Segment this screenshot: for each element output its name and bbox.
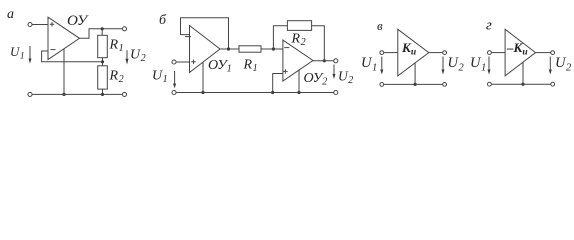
minus sign OU1 bbox=[185, 36, 191, 38]
svg-text:ОУ1: ОУ1 bbox=[208, 58, 232, 75]
wire common pin to rail (g) bbox=[522, 63, 524, 85]
arrow U1 (g) bbox=[488, 57, 491, 75]
svg-text:в: в bbox=[377, 18, 383, 33]
terminal bottom-right (b) bbox=[334, 90, 338, 94]
label U1 (v) bbox=[361, 55, 377, 74]
node dot OU2 feedback left bbox=[272, 47, 275, 50]
svg-text:U2: U2 bbox=[448, 55, 465, 74]
resistor R1 (b) bbox=[239, 46, 261, 52]
minus sign OU2 bbox=[284, 47, 289, 49]
amplifier Ku triangle (v) bbox=[398, 29, 429, 76]
arrow U2 (g) bbox=[549, 57, 552, 75]
wire R2 bottom lead bbox=[102, 89, 104, 94]
plus sign OU2 bbox=[283, 69, 287, 73]
wire R1 top lead bbox=[101, 29, 103, 36]
label a bbox=[7, 7, 14, 22]
terminal bottom-left (g) bbox=[488, 82, 492, 86]
label Ku (v) bbox=[401, 40, 416, 58]
resistor R1 (a) bbox=[98, 35, 108, 57]
label R1 (a) bbox=[109, 38, 124, 55]
terminal input left (v) bbox=[380, 51, 384, 55]
op-amp OU2 triangle bbox=[283, 40, 313, 81]
wire OU2 common pin to rail bbox=[298, 70, 300, 93]
svg-text:U1: U1 bbox=[470, 55, 486, 74]
svg-text:ОУ: ОУ bbox=[67, 13, 89, 29]
wire OU1 output to R1 bbox=[220, 48, 239, 50]
terminal input left (b) bbox=[172, 60, 176, 64]
label R2 (a) bbox=[109, 69, 124, 86]
arrow U1 (b) bbox=[173, 71, 176, 89]
label U2 (b) bbox=[338, 69, 353, 87]
wire R1 bottom to R2 top lead bbox=[102, 58, 104, 66]
op-amp OU triangle (a) bbox=[48, 17, 80, 59]
wire ground rail (v) bbox=[384, 83, 443, 85]
node dot output/R1 top (a) bbox=[101, 27, 104, 30]
node dot common pin on rail (v) bbox=[414, 83, 417, 86]
arrow U1 (v) bbox=[380, 57, 383, 75]
wire ground rail (g) bbox=[492, 83, 551, 85]
label U2 (v) bbox=[448, 55, 465, 74]
label g bbox=[486, 18, 492, 34]
node dot + step on rail (b) bbox=[271, 91, 274, 94]
svg-text:U2: U2 bbox=[130, 48, 146, 65]
terminal bottom-right (v) bbox=[443, 83, 447, 87]
label OU2 bbox=[304, 71, 328, 88]
label v bbox=[377, 18, 383, 33]
svg-text:–Кu: –Кu bbox=[506, 40, 528, 58]
arrow U1 (a) bbox=[29, 46, 32, 64]
wire input terminal to amplifier (v) bbox=[384, 52, 398, 54]
plus sign OU1 bbox=[191, 60, 195, 64]
svg-text:б: б bbox=[159, 13, 167, 28]
node dot OU1 common pin on rail bbox=[201, 91, 204, 94]
terminal bottom-left (v) bbox=[380, 83, 384, 87]
wire OU2 output to terminal bbox=[313, 60, 334, 62]
resistor R2 (b) bbox=[287, 21, 311, 31]
svg-text:г: г bbox=[486, 18, 492, 34]
wire from input terminal to + input bbox=[32, 24, 48, 26]
label U2 (a) bbox=[130, 48, 146, 65]
svg-text:R2: R2 bbox=[291, 32, 306, 49]
svg-text:R1: R1 bbox=[243, 58, 258, 75]
svg-text:R2: R2 bbox=[109, 69, 124, 86]
node dot OU2 output bbox=[323, 59, 326, 62]
svg-text:U1: U1 bbox=[361, 55, 377, 74]
wire op-amp output to top node (a) bbox=[80, 29, 123, 39]
label U1 (a) bbox=[10, 44, 25, 62]
wire input terminal to amplifier (g) bbox=[492, 52, 506, 54]
terminal output right (v) bbox=[443, 51, 447, 55]
wire amplifier output to terminal (g) bbox=[536, 52, 551, 54]
plus sign at + input (a) bbox=[50, 22, 54, 26]
terminal bottom-left (a) bbox=[28, 92, 32, 96]
wire ground rail (b) bbox=[176, 92, 333, 94]
label U1 (g) bbox=[470, 55, 486, 74]
label b bbox=[159, 13, 167, 28]
terminal output right (b) bbox=[334, 59, 338, 63]
amplifier -Ku triangle (g) bbox=[505, 29, 535, 76]
node dot OU1 output bbox=[227, 47, 230, 50]
node dot OU2 common pin on rail bbox=[297, 91, 300, 94]
resistor R2 (a) bbox=[98, 66, 108, 89]
arrow U2 (v) bbox=[442, 57, 445, 75]
label OU (a) bbox=[67, 13, 89, 29]
terminal bottom-right (a) bbox=[122, 92, 126, 96]
wire feedback loop OU2 left side bbox=[273, 26, 287, 49]
wire R1 to - input OU2 bbox=[261, 48, 283, 50]
label R1 (b) bbox=[243, 58, 258, 75]
terminal output top-right (a) bbox=[122, 27, 126, 31]
node dot R2 bottom on ground rail (a) bbox=[101, 93, 104, 96]
wire feedback: - input step to R1/R2 junction bbox=[42, 51, 103, 62]
node dot common pin on rail (g) bbox=[521, 83, 524, 86]
svg-text:R1: R1 bbox=[109, 38, 124, 55]
label -Ku (g) bbox=[506, 40, 528, 58]
svg-text:Кu: Кu bbox=[401, 40, 416, 58]
op-amp OU1 triangle bbox=[190, 26, 221, 73]
wire feedback loop OU1 output to - input bbox=[181, 18, 229, 49]
wire OU1 common pin to rail bbox=[202, 62, 204, 92]
svg-text:U1: U1 bbox=[152, 69, 168, 86]
terminal output right (g) bbox=[551, 51, 555, 55]
wire amplifier output to terminal (v) bbox=[429, 52, 443, 54]
label OU1 bbox=[208, 58, 232, 75]
node dot R1/R2 junction (a) bbox=[101, 60, 104, 63]
svg-text:ОУ2: ОУ2 bbox=[304, 71, 328, 88]
svg-text:U2: U2 bbox=[555, 55, 572, 74]
wire common pin to rail (v) bbox=[414, 63, 416, 84]
wire op-amp common pin to ground rail (a) bbox=[63, 49, 65, 95]
arrow U2 (b) bbox=[333, 65, 336, 80]
wire feedback loop OU2 right side bbox=[312, 26, 325, 61]
label R2 (b) bbox=[291, 32, 306, 49]
arrow U2 (a) bbox=[126, 50, 129, 64]
svg-text:U1: U1 bbox=[10, 44, 25, 62]
wire + input OU2 step to ground rail bbox=[273, 74, 283, 93]
svg-text:U2: U2 bbox=[338, 69, 353, 87]
minus sign at - input (a) bbox=[51, 49, 56, 51]
wire ground rail (a) bbox=[32, 93, 122, 95]
terminal input top-left (a) bbox=[28, 22, 32, 26]
label U1 (b) bbox=[152, 69, 168, 86]
terminal bottom-right (g) bbox=[551, 82, 555, 86]
svg-text:а: а bbox=[7, 7, 14, 22]
node dot common pin on rail (a) bbox=[62, 93, 65, 96]
terminal bottom-left (b) bbox=[172, 90, 176, 94]
label U2 (g) bbox=[555, 55, 572, 74]
terminal input left (g) bbox=[488, 51, 492, 55]
wire input terminal to + input OU1 bbox=[176, 61, 189, 63]
